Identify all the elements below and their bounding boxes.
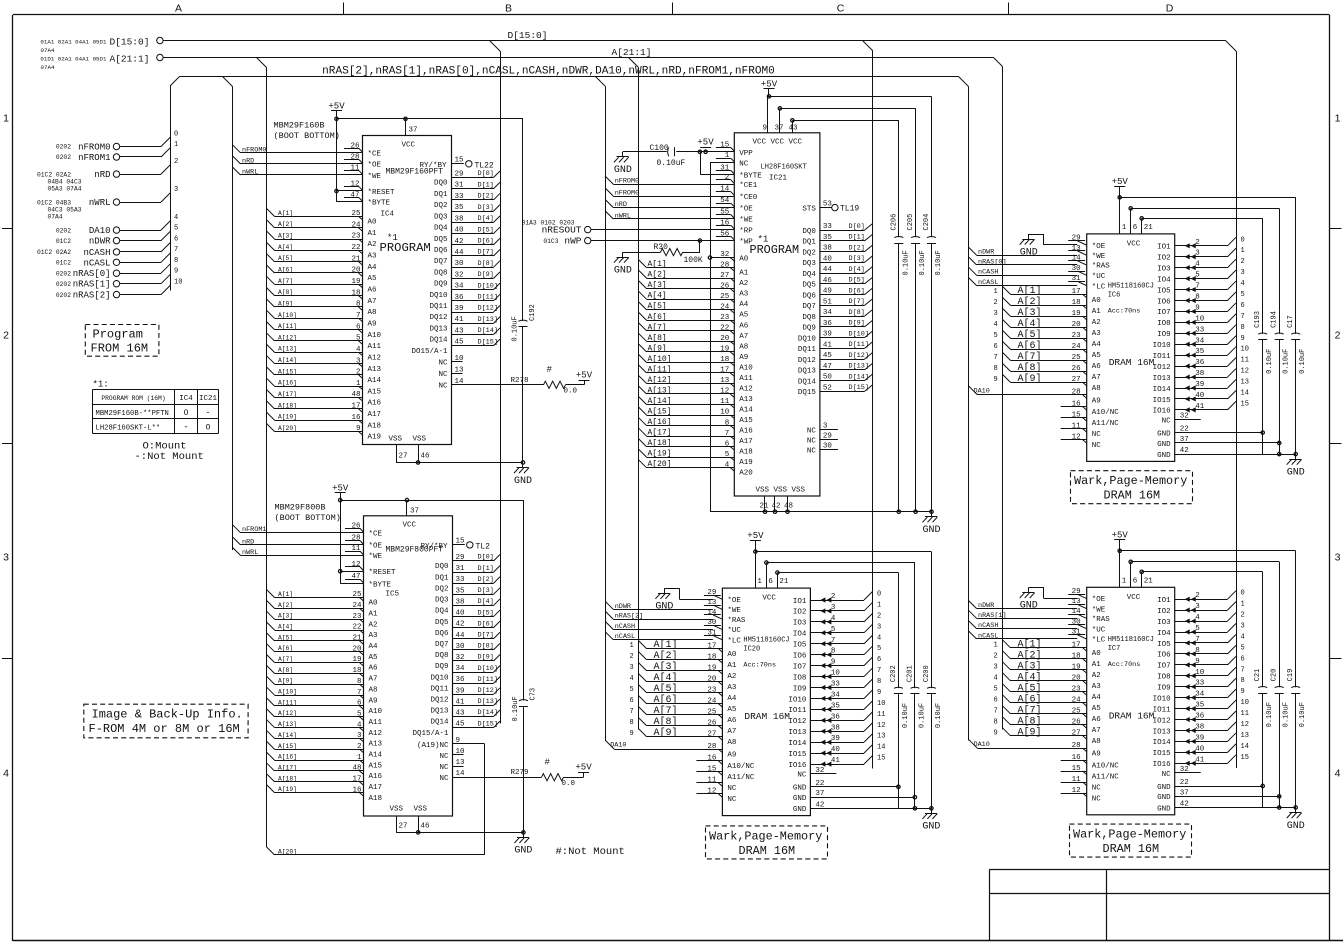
svg-text:27: 27 [399,823,408,831]
svg-text:52: 52 [823,384,832,392]
svg-text:29: 29 [707,589,716,597]
svg-text:37: 37 [775,125,784,133]
svg-text:nWRL: nWRL [242,169,258,177]
svg-text:1: 1 [994,641,998,649]
svg-text:17: 17 [352,775,361,783]
IC20 IO pin 35 IO11 wire to data bit 10 [788,700,885,715]
IC20 IO pin 5 IO4 wire to data bit 3 [793,623,881,638]
svg-text:30: 30 [456,643,466,651]
svg-text:46: 46 [823,277,833,285]
IC20 GND pin 42 wire [793,801,933,814]
svg-text:14: 14 [1241,389,1249,397]
svg-text:8: 8 [356,301,361,309]
IC5 data pin 34 DQ10 wire D[10] [430,665,500,683]
svg-text:A[7]: A[7] [278,656,293,663]
svg-text:0.10uF: 0.10uF [1266,349,1274,374]
input terminal nFROM0 [56,130,178,152]
svg-text:IO12: IO12 [1153,717,1171,725]
IC20 GND pin 37 wire [793,790,917,803]
svg-text:39: 39 [831,735,840,743]
svg-text:22: 22 [1180,779,1189,787]
IC4 address pin 18 A7 wire A[8] [267,288,377,306]
IC4 data pin 36 DQ11 wire D[11] [429,294,500,312]
svg-text:A[4]: A[4] [278,624,293,631]
IC20 address pin 18 A1 wire A[2] [630,650,737,670]
svg-text:D[2]: D[2] [478,576,494,584]
svg-text:24: 24 [352,602,362,610]
IC7 IO pin 4 IO3 wire to data bit 2 [1157,612,1245,627]
svg-text:*BYTE: *BYTE [739,173,762,181]
IC21 +5V supply and VCC pins 9 37 43 [761,80,932,133]
svg-text:6: 6 [1241,302,1245,310]
svg-text:3: 3 [994,663,998,671]
svg-text:GND: GND [922,525,940,536]
svg-text:0.10uF: 0.10uF [512,696,520,721]
IC20 pin 11 NC no connect [696,777,737,794]
svg-text:A4: A4 [1092,341,1102,349]
svg-text:NC: NC [1162,771,1172,779]
capacitor C73 0.10uF [512,500,538,832]
svg-text:*CE: *CE [368,151,382,159]
svg-text:12: 12 [1241,368,1249,376]
svg-text:DQ5: DQ5 [435,619,449,627]
svg-text:10: 10 [456,748,466,756]
svg-text:0202: 0202 [56,154,71,161]
svg-text:DQ13: DQ13 [429,325,448,333]
bus tap D to IC21/IC20 data channel [863,41,874,52]
svg-text:HM5118160CJ: HM5118160CJ [743,637,789,645]
flash ROM IC21 LH28F160S5KT box [734,133,820,496]
svg-text:23: 23 [351,233,361,241]
wire data channel x=875 (IC21,IC20) [872,51,874,769]
IC4 data pin 33 DQ2 wire D[2] [434,193,500,211]
svg-text:5: 5 [877,645,881,653]
svg-text:IO2: IO2 [793,609,807,617]
svg-text:24: 24 [707,697,717,705]
svg-text:C21: C21 [1254,669,1262,682]
IC5 part label [275,503,341,524]
IC4 address pin 5 A11 wire A[12] [267,333,382,351]
IC4 VSS pins 27 46 wires [389,436,525,465]
svg-text:0202: 0202 [56,144,71,151]
svg-text:Acc:70ns: Acc:70ns [1108,661,1141,669]
svg-text:36: 36 [455,294,465,302]
svg-text:7: 7 [357,689,362,697]
IC21 data pin 44 DQ4 wire D[4] [802,266,872,279]
svg-text:A1: A1 [368,230,378,238]
svg-text:VCC: VCC [403,522,417,530]
svg-text:4: 4 [1195,261,1200,269]
DRAM IC7 HM5118160CJ box [1087,587,1175,815]
svg-text:A[8]: A[8] [1018,362,1042,374]
IC4 address pin 23 A2 wire A[3] [267,231,377,249]
svg-text:A: A [175,3,182,15]
svg-text:RY/*BY: RY/*BY [419,162,447,170]
svg-text:A[2]: A[2] [1018,649,1042,661]
svg-text:IO1: IO1 [793,598,807,606]
svg-text:46: 46 [421,823,431,831]
svg-text:2: 2 [357,743,362,751]
svg-text:18: 18 [1072,653,1081,661]
IC21 address pin 12 A13 wire A[13] [639,386,754,404]
svg-text:39: 39 [456,687,465,695]
svg-text:NC: NC [1162,417,1172,425]
IC7 GND pin 42 wire [1157,801,1297,814]
IC5 address pin 19 A6 wire A[7] [267,655,379,673]
svg-text:*UC: *UC [1092,626,1106,634]
IC4 address pin 24 A1 wire A[2] [267,220,378,238]
svg-text:2: 2 [630,653,634,661]
svg-text:A14: A14 [368,377,382,385]
svg-text:IC21: IC21 [199,395,218,403]
IC20 IO pin 41 IO16 wire to data bit 15 [788,755,885,770]
svg-text:DQ6: DQ6 [434,247,448,255]
svg-text:A8: A8 [1092,738,1101,746]
svg-text:A0: A0 [739,256,749,264]
svg-text:DRAM 16M: DRAM 16M [1103,842,1160,856]
IC7 pin 28 A9 wire from DA10 [969,739,1101,758]
svg-text:2: 2 [1195,592,1200,600]
svg-text:*OE: *OE [739,205,753,213]
IC4 address pin 16 A18 wire A[19] [267,412,382,430]
IC4 address pin 17 A17 wire A[18] [267,401,382,419]
svg-text:IO3: IO3 [793,620,807,628]
svg-text:IO7: IO7 [1157,309,1171,317]
IC6 pin 15 A11/NC no connect [1061,411,1120,428]
svg-text:NC: NC [739,161,749,169]
zone labels A B C D [175,3,1174,15]
note *1: mount table [93,380,219,464]
svg-text:30: 30 [823,443,833,451]
svg-text:2: 2 [877,612,881,620]
IC4 VCC pin 37 wire [404,117,418,135]
svg-text:23: 23 [1072,686,1082,694]
IC7 IO pin 35 IO11 wire to data bit 10 [1153,699,1249,714]
svg-text:nFROM0: nFROM0 [78,143,110,153]
svg-text:1: 1 [174,141,178,149]
IC5 data pin 42 DQ6 wire D[6] [435,620,500,638]
IC21 data pin 38 DQ2 wire D[2] [802,244,872,257]
svg-text:DQ15/A-1: DQ15/A-1 [412,730,449,738]
IC20 address pin 19 A2 wire A[3] [630,661,737,681]
svg-text:44: 44 [455,249,465,257]
svg-text:VCC: VCC [1127,240,1141,248]
IC21 data pin 35 DQ1 wire D[1] [802,234,872,247]
svg-text:10: 10 [455,355,465,363]
svg-text:*CE1: *CE1 [739,182,758,190]
svg-text:A12: A12 [369,730,383,738]
svg-text:D[15]: D[15] [478,338,498,346]
svg-text:A2: A2 [1092,672,1101,680]
svg-text:A3: A3 [727,684,737,692]
wire control channel x=604.7 (IC21,IC20) [605,86,607,740]
svg-text:14: 14 [1241,743,1249,751]
svg-text:11: 11 [1072,776,1082,784]
IC7 pin 13 *WE wire from nDWR [969,598,1106,614]
svg-text:5: 5 [1241,644,1245,652]
svg-text:31: 31 [455,182,465,190]
svg-text:17: 17 [1072,642,1081,650]
svg-text:1: 1 [357,754,362,762]
svg-text:A[4]: A[4] [1018,318,1042,330]
svg-text:9: 9 [994,729,998,737]
svg-text:DRAM 16M: DRAM 16M [739,844,796,858]
svg-text:A[9]: A[9] [1018,373,1042,385]
svg-text:A[21:1]: A[21:1] [110,54,150,65]
svg-text:33: 33 [831,681,841,689]
IC4 data pin 38 DQ4 wire D[4] [434,215,500,233]
svg-text:46: 46 [421,453,431,461]
svg-text:VCC: VCC [762,595,776,603]
IC21 VSS pins 21 42 48 wires to ground [710,496,933,513]
svg-text:14: 14 [877,744,885,752]
IC6 address pin 25 A6 wire A[7] [994,351,1102,371]
IC4 address pin 22 A3 wire A[4] [267,242,378,260]
ground [614,252,632,276]
svg-text:28: 28 [1072,742,1081,750]
IC21 data pin 46 DQ5 wire D[5] [802,277,872,290]
svg-text:A5: A5 [727,706,737,714]
IC5 data pin 39 DQ12 wire D[12] [430,687,500,705]
bus tap D to IC4/IC5 data channel [490,41,501,52]
svg-text:DA10: DA10 [89,226,111,236]
svg-text:0.0: 0.0 [562,780,576,788]
svg-text:NC: NC [807,437,817,445]
svg-text:A6: A6 [368,287,378,295]
svg-text:IO10: IO10 [788,696,807,704]
IC21 NC pins 3 29 30 [807,423,838,456]
svg-text:11: 11 [1072,422,1082,430]
svg-text:B: B [505,3,512,15]
svg-text:NC: NC [438,383,448,391]
input terminal nCASL [56,246,178,268]
svg-text:GND: GND [793,785,807,793]
svg-text:VSS VSS VSS: VSS VSS VSS [756,487,806,495]
svg-text:7: 7 [1195,283,1200,291]
svg-text:5: 5 [174,224,178,232]
svg-text:51: 51 [823,298,833,306]
svg-text:IO8: IO8 [793,674,807,682]
svg-text:10: 10 [174,278,182,286]
svg-text:A3: A3 [1092,330,1102,338]
svg-text:01C2 04B3: 01C2 04B3 [37,199,71,206]
svg-text:IO7: IO7 [793,663,807,671]
svg-text:48: 48 [784,503,793,511]
bus tap A to IC4/IC5 address channel [257,58,267,68]
svg-text:IO6: IO6 [1157,298,1171,306]
IC21 address pin 25 A4 wire A[4] [639,291,749,309]
svg-text:6: 6 [994,696,998,704]
svg-text:6: 6 [357,700,362,708]
IC7 pin 32 NC [1162,766,1201,779]
svg-text:D[5]: D[5] [478,609,494,617]
svg-text:-:Not Mount: -:Not Mount [135,451,204,463]
IC5 data pin 32 DQ9 wire D[9] [435,654,500,672]
svg-text:A11/NC: A11/NC [1092,420,1120,428]
svg-text:C201: C201 [906,665,914,682]
svg-text:14: 14 [1072,608,1082,616]
svg-text:VCC: VCC [402,142,416,150]
svg-text:+5V: +5V [576,371,593,381]
svg-text:A5: A5 [739,312,749,320]
svg-text:A8: A8 [727,739,736,747]
svg-text:42: 42 [1180,447,1189,455]
IC20 pin 13 *WE wire from nDWR [605,599,741,615]
IC7 pin 14 *RAS wire from nRAS[1] [969,608,1111,624]
svg-text:23: 23 [720,314,730,322]
svg-text:A1: A1 [739,270,749,278]
svg-text:3: 3 [823,423,828,431]
IC20 pin 12 NC no connect [696,788,737,805]
svg-text:*WE: *WE [1092,606,1106,614]
svg-text:IO10: IO10 [1153,342,1172,350]
svg-text:DQ14: DQ14 [430,719,449,727]
svg-text:28: 28 [707,743,716,751]
svg-text:9: 9 [877,689,881,697]
svg-text:IO1: IO1 [1157,597,1171,605]
IC4 data pin 39 DQ12 wire D[12] [429,305,500,323]
svg-text:4: 4 [174,214,178,222]
svg-text:0.10uF: 0.10uF [1299,702,1307,727]
svg-text:DQ8: DQ8 [434,269,448,277]
IC20 inside labels [743,595,790,723]
svg-text:A[11]: A[11] [648,365,672,374]
IC7 pin 12 NC no connect [1061,787,1102,804]
IC6 pin 16 A10/NC no connect [1061,400,1120,417]
svg-text:9: 9 [1241,335,1245,343]
svg-text:D[14]: D[14] [478,327,498,335]
svg-text:37: 37 [1180,789,1189,797]
svg-text:*OE: *OE [727,597,741,605]
svg-text:55: 55 [720,209,730,217]
svg-text:PROGRAM: PROGRAM [380,241,431,255]
svg-text:21: 21 [1144,577,1154,585]
svg-text:A3: A3 [368,253,378,261]
svg-text:44: 44 [823,266,833,274]
IC4 address pin 4 A12 wire A[13] [267,344,382,362]
svg-text:Program: Program [93,328,143,342]
svg-text:5: 5 [1195,272,1200,280]
svg-text:A15: A15 [368,388,382,396]
svg-text:25: 25 [352,591,362,599]
IC6 GND pin 42 wire [1157,447,1297,460]
svg-text:12: 12 [1072,787,1081,795]
svg-text:D[15:0]: D[15:0] [508,30,548,41]
resistor R30 100K nWP pull-down [623,239,703,265]
svg-text:24: 24 [1072,343,1082,351]
IC21 address pin 24 A5 wire A[5] [639,302,749,320]
svg-text:D[11]: D[11] [478,294,498,302]
IC7 IO pin 8 IO6 wire to data bit 5 [1157,644,1245,659]
svg-text:Wark,Page-Memory: Wark,Page-Memory [1074,474,1187,488]
title block [989,870,1329,942]
ground [514,463,532,487]
IC4 part label [274,121,340,142]
svg-text:D[2]: D[2] [478,193,494,201]
svg-text:01C2: 01C2 [56,260,71,267]
input terminal nRD [37,158,178,192]
svg-text:DQ11: DQ11 [798,346,817,354]
svg-text:MBM29F800B: MBM29F800B [275,503,326,513]
svg-text:9: 9 [831,659,836,667]
svg-text:C20: C20 [1271,669,1279,682]
svg-text:0.10uF: 0.10uF [512,316,520,341]
svg-text:12: 12 [1241,721,1249,729]
IC7 IO pin 10 IO8 wire to data bit 7 [1157,666,1245,681]
svg-text:2: 2 [1241,612,1245,620]
svg-text:A[8]: A[8] [278,667,293,674]
svg-text:16: 16 [1072,754,1082,762]
svg-text:IC7: IC7 [1108,645,1121,653]
svg-text:21: 21 [1144,224,1154,232]
svg-text:A1: A1 [369,611,379,619]
svg-text:A8: A8 [369,686,378,694]
svg-text:19: 19 [1072,310,1081,318]
IC20 IO pin 36 IO12 wire to data bit 11 [788,711,885,726]
IC7 IO pin 7 IO5 wire to data bit 4 [1157,633,1245,648]
svg-text:A2: A2 [369,621,378,629]
svg-text:A6: A6 [727,717,737,725]
svg-text:33: 33 [455,193,465,201]
IC5 data pin 29 DQ0 wire D[0] [435,554,500,572]
svg-text:D[0]: D[0] [478,170,494,178]
IC20 GND pin 22 wire [793,780,900,793]
svg-text:0.10uF: 0.10uF [1266,702,1274,727]
svg-text:41: 41 [823,341,833,349]
svg-text:A4: A4 [368,264,378,272]
svg-text:7: 7 [831,637,836,645]
svg-text:5: 5 [357,710,362,718]
svg-text:5: 5 [1241,291,1245,299]
note box Image & Back-Up Info [84,704,248,738]
IC7 GND pin 37 wire [1157,789,1281,802]
svg-text:D[7]: D[7] [478,631,494,639]
svg-text:DO15/A-1: DO15/A-1 [411,348,448,356]
svg-text:DQ7: DQ7 [434,258,448,266]
svg-text:D[1]: D[1] [849,234,865,242]
svg-text:32: 32 [1180,413,1189,421]
svg-text:A[5]: A[5] [1018,329,1042,341]
terminal A[21:1] [40,54,163,72]
svg-text:A17: A17 [739,438,753,446]
IC7 address pin 23 A4 wire A[5] [994,682,1102,702]
svg-text:3: 3 [357,732,362,740]
svg-text:A[13]: A[13] [278,346,297,353]
svg-text:48: 48 [352,765,361,773]
svg-text:FROM 16M: FROM 16M [91,342,149,356]
svg-text:A[3]: A[3] [1018,307,1042,319]
svg-text:29: 29 [456,554,465,562]
IC4 inside labels [380,142,447,256]
IC6 pin 11 NC no connect [1061,422,1102,439]
svg-text:8: 8 [725,419,730,427]
svg-text:A4: A4 [1092,694,1102,702]
svg-text:42: 42 [772,503,781,511]
svg-text:DQ0: DQ0 [434,180,448,188]
IC4 address pin 8 A8 wire A[9] [267,299,377,317]
svg-text:DQ1: DQ1 [434,191,448,199]
svg-text:nRD: nRD [242,538,254,546]
svg-text:A[6]: A[6] [1018,693,1042,705]
svg-text:07A4: 07A4 [48,213,63,220]
svg-text:05A3 07A4: 05A3 07A4 [48,185,82,192]
svg-text:14: 14 [455,378,465,386]
svg-text:12: 12 [707,788,716,796]
IC20 address pin 24 A5 wire A[6] [630,694,737,714]
IC20 pin 16 A10/NC no connect [696,755,755,772]
bus tap A to IC21/IC20 address channel [629,58,639,68]
svg-text:D[6]: D[6] [478,237,494,245]
